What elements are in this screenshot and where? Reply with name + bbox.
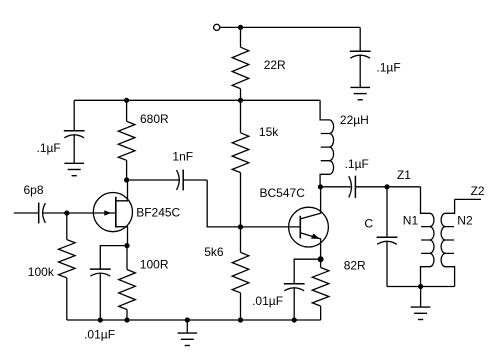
wire: input stub: [14, 212, 39, 214]
ground (bottom rail): [186, 320, 188, 333]
junction: rail/100R: [124, 317, 129, 322]
capacitor C1 .1uF (top right): [359, 27, 361, 51]
wire: supply rail: [220, 26, 360, 28]
svg-text:Z1: Z1: [397, 168, 411, 182]
wire: top rail: [74, 99, 320, 101]
svg-text:.1µF: .1µF: [37, 141, 61, 155]
ground (top right): [350, 86, 370, 88]
capacitor C6 .01uF (right): [284, 283, 305, 285]
capacitor C2 .1uF (left): [73, 100, 75, 131]
capacitor C4 6p8: [38, 212, 40, 214]
resistor R6 100R: [126, 246, 128, 270]
svg-text:22R: 22R: [264, 58, 286, 72]
svg-text:.1µF: .1µF: [376, 61, 400, 75]
svg-text:BC547C: BC547C: [260, 186, 306, 200]
junction: source/100R/.01uF: [124, 243, 129, 248]
transformer winding N1: [421, 187, 435, 287]
ground (left): [64, 162, 84, 164]
svg-text:N1: N1: [403, 214, 419, 228]
svg-text:5k6: 5k6: [204, 245, 224, 259]
svg-text:100R: 100R: [140, 258, 169, 272]
resistor R7 82R: [320, 259, 322, 267]
junction: transformer ground: [418, 284, 423, 289]
junction: rail/680R: [124, 98, 129, 103]
svg-text:.01µF: .01µF: [84, 328, 115, 342]
svg-text:100k: 100k: [28, 265, 55, 279]
resistor R2 680R: [126, 100, 128, 121]
svg-text:680R: 680R: [140, 112, 169, 126]
wire: Z2 stub: [455, 198, 481, 200]
capacitor C3 1nF: [127, 179, 180, 181]
svg-text:22µH: 22µH: [340, 113, 369, 127]
svg-text:.01µF: .01µF: [252, 294, 283, 308]
svg-text:.1µF: .1µF: [345, 157, 369, 171]
resistor R4 5k6: [240, 227, 242, 253]
transistor Q1 BF245C: [93, 193, 132, 232]
capacitor C8 C: [386, 187, 388, 238]
wire: emitter branch: [294, 259, 320, 284]
junction: rail/.01uF: [98, 317, 103, 322]
junction: rail/.01uF right: [292, 317, 297, 322]
resistor R3 15k: [240, 100, 242, 133]
transistor Q2 BC547C: [289, 207, 329, 247]
transformer winding N2: [441, 199, 455, 286]
inductor L1 22uH: [320, 100, 334, 187]
svg-text:N2: N2: [457, 214, 473, 228]
svg-text:1nF: 1nF: [172, 150, 193, 164]
junction: 15k/5k6/base: [238, 224, 243, 229]
wire: bottom right: [387, 286, 455, 288]
ground (bottom right): [420, 287, 422, 308]
capacitor C7 .1uF (coupling): [320, 186, 352, 188]
resistor R5 100k: [66, 213, 68, 240]
wire: gate: [67, 212, 116, 214]
junction: rail/ground: [185, 317, 190, 322]
wire: source to .01uF: [100, 246, 127, 270]
terminal: supply input: [214, 24, 220, 30]
svg-text:6p8: 6p8: [24, 183, 44, 197]
wire: 1nF to base: [207, 180, 300, 227]
junction: emitter/82R/.01uF: [318, 256, 324, 262]
junction: collector/L1/C7: [318, 184, 323, 189]
svg-text:BF245C: BF245C: [136, 206, 180, 220]
svg-text:15k: 15k: [259, 125, 279, 139]
wire: bottom rail: [67, 319, 321, 321]
wire: Z1: [387, 186, 421, 188]
svg-text:C: C: [364, 217, 373, 231]
capacitor C5 .01uF (left): [90, 268, 111, 270]
svg-text:Z2: Z2: [471, 184, 485, 198]
junction: rail/22R/15k: [238, 98, 243, 103]
junction: supply/22R: [238, 25, 243, 30]
svg-text:82R: 82R: [344, 258, 366, 272]
junction: drain/680R/1nF: [124, 177, 129, 182]
resistor R1 22R: [240, 27, 242, 47]
junction: C7/C/Z1: [384, 184, 389, 189]
junction: rail/5k6: [238, 317, 243, 322]
junction: gate/100k: [64, 210, 69, 215]
